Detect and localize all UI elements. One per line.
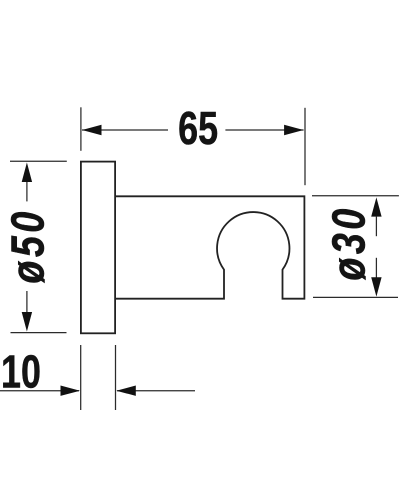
holder arm outline with keyhole cutout	[115, 196, 304, 298]
dimension ø50: dimension line upper segment	[26, 182, 28, 201]
dimension 10: left-pointing arrow	[116, 386, 136, 396]
dimension 65: dimension line left segment	[82, 129, 168, 131]
dimension ø50: up arrow	[22, 163, 32, 183]
dimension ø30: top extension line	[312, 195, 399, 197]
dimension 65: left arrow	[82, 125, 102, 135]
dimension 10: left dimension line	[0, 390, 79, 392]
dimension ø50: dimension line lower segment	[26, 291, 28, 313]
dimension ø50: down arrow	[22, 312, 32, 332]
dimension 10: right-pointing arrow	[61, 386, 81, 396]
dimension 10: right extension line	[115, 345, 117, 410]
dimension ø50: top extension line	[10, 160, 67, 162]
svg-text:10: 10	[1, 346, 41, 397]
svg-text:ø50: ø50	[2, 208, 53, 283]
dimension ø30: bottom extension line	[313, 296, 398, 298]
dimension ø50: bottom extension line	[11, 332, 67, 334]
dimension 65: right arrow	[284, 125, 304, 135]
dimension 65: right extension line	[304, 108, 306, 185]
svg-text:ø30: ø30	[323, 205, 374, 280]
dimension 65: dimension line right segment	[225, 129, 303, 131]
dimension 10: right dimension line	[117, 390, 195, 392]
dimension ø30: dimension line upper segment	[375, 217, 377, 237]
dimension ø30: dimension line lower segment	[375, 258, 377, 278]
dimension 65: left extension line	[80, 107, 82, 151]
dimension 10: left extension line	[80, 345, 82, 410]
dimension ø30: down arrow	[371, 277, 381, 296]
svg-text:65: 65	[178, 103, 218, 154]
dimension ø30: up arrow	[371, 197, 381, 216]
wall plate outline	[81, 162, 115, 334]
